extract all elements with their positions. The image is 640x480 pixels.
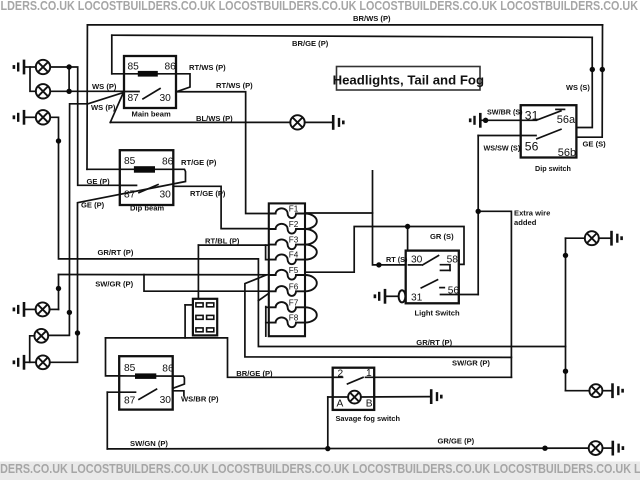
svg-text:56: 56 [448, 286, 460, 297]
svg-text:RT/WS (P): RT/WS (P) [216, 81, 253, 90]
svg-text:85: 85 [124, 156, 136, 167]
svg-text:F5: F5 [289, 266, 299, 275]
svg-text:BL/WS (P): BL/WS (P) [196, 114, 233, 123]
svg-text:Extra wire: Extra wire [514, 209, 550, 218]
svg-text:F2: F2 [289, 220, 299, 229]
svg-text:Dip beam: Dip beam [130, 204, 164, 213]
svg-text:GE (S): GE (S) [583, 140, 607, 149]
svg-text:added: added [514, 218, 537, 227]
svg-text:F8: F8 [289, 314, 299, 323]
svg-text:56b: 56b [558, 147, 576, 159]
svg-text:B: B [366, 398, 373, 409]
svg-text:1: 1 [366, 368, 372, 379]
svg-text:2: 2 [338, 369, 344, 380]
svg-text:Light Switch: Light Switch [415, 308, 460, 317]
svg-text:Dip switch: Dip switch [535, 164, 571, 173]
svg-text:WS/BR (P): WS/BR (P) [181, 395, 219, 404]
svg-text:F1: F1 [289, 205, 299, 214]
svg-text:BR/WS (P): BR/WS (P) [353, 14, 391, 23]
svg-text:Savage fog switch: Savage fog switch [336, 414, 401, 423]
svg-text:87: 87 [124, 395, 136, 406]
svg-text:85: 85 [124, 363, 136, 374]
svg-text:58: 58 [447, 255, 459, 266]
svg-text:GE (P): GE (P) [87, 177, 111, 186]
svg-text:WS (P): WS (P) [91, 103, 116, 112]
svg-text:BR/GE (P): BR/GE (P) [292, 39, 329, 48]
svg-text:RT (S): RT (S) [386, 255, 408, 264]
svg-text:87: 87 [124, 190, 136, 201]
svg-text:LOCOSTBUILDERS.CO.UK LOCOSTBU: LOCOSTBUILDERS.CO.UK LOCOSTBUILDERS.CO.U… [0, 461, 640, 476]
svg-text:RT/BL (P): RT/BL (P) [205, 236, 240, 245]
svg-text:RT/GE (P): RT/GE (P) [190, 189, 226, 198]
svg-text:RT/GE (P): RT/GE (P) [181, 158, 217, 167]
svg-text:WS (S): WS (S) [566, 83, 590, 92]
svg-text:SW/BR (S): SW/BR (S) [487, 108, 523, 117]
svg-text:BR/GE (P): BR/GE (P) [236, 369, 273, 378]
svg-text:RT/WS (P): RT/WS (P) [189, 63, 226, 72]
svg-text:GR/GE (P): GR/GE (P) [438, 437, 475, 446]
svg-text:F6: F6 [289, 282, 299, 291]
svg-text:SW/GR (P): SW/GR (P) [95, 280, 133, 289]
svg-text:Main beam: Main beam [132, 110, 171, 119]
svg-text:SW/GR (P): SW/GR (P) [452, 359, 490, 368]
svg-text:56a: 56a [557, 114, 576, 126]
svg-text:86: 86 [162, 157, 174, 168]
svg-text:GR/RT (P): GR/RT (P) [416, 338, 452, 347]
svg-text:SW/GN (P): SW/GN (P) [130, 439, 168, 448]
svg-text:Headlights, Tail and Fog: Headlights, Tail and Fog [333, 73, 484, 88]
svg-text:A: A [337, 398, 344, 409]
svg-text:30: 30 [411, 255, 423, 266]
svg-text:30: 30 [160, 93, 172, 104]
svg-text:GR (S): GR (S) [430, 232, 454, 241]
svg-text:WS (P): WS (P) [92, 82, 117, 91]
svg-text:F3: F3 [289, 236, 299, 245]
svg-text:31: 31 [411, 293, 423, 304]
svg-text:86: 86 [162, 363, 174, 374]
svg-text:F4: F4 [289, 251, 299, 260]
svg-text:86: 86 [165, 62, 177, 73]
svg-text:GE (P): GE (P) [81, 201, 105, 210]
svg-text:85: 85 [128, 62, 140, 73]
svg-text:30: 30 [160, 395, 172, 406]
svg-text:87: 87 [128, 93, 140, 104]
svg-text:GR/RT (P): GR/RT (P) [98, 248, 134, 257]
svg-text:LOCOSTBUILDERS.CO.UK LOCOSTBU: LOCOSTBUILDERS.CO.UK LOCOSTBUILDERS.CO.U… [0, 0, 640, 13]
svg-text:F7: F7 [289, 298, 299, 307]
svg-text:31: 31 [525, 109, 539, 123]
svg-text:30: 30 [160, 190, 172, 201]
svg-text:WS/SW (S): WS/SW (S) [484, 144, 521, 153]
svg-text:56: 56 [525, 140, 539, 154]
